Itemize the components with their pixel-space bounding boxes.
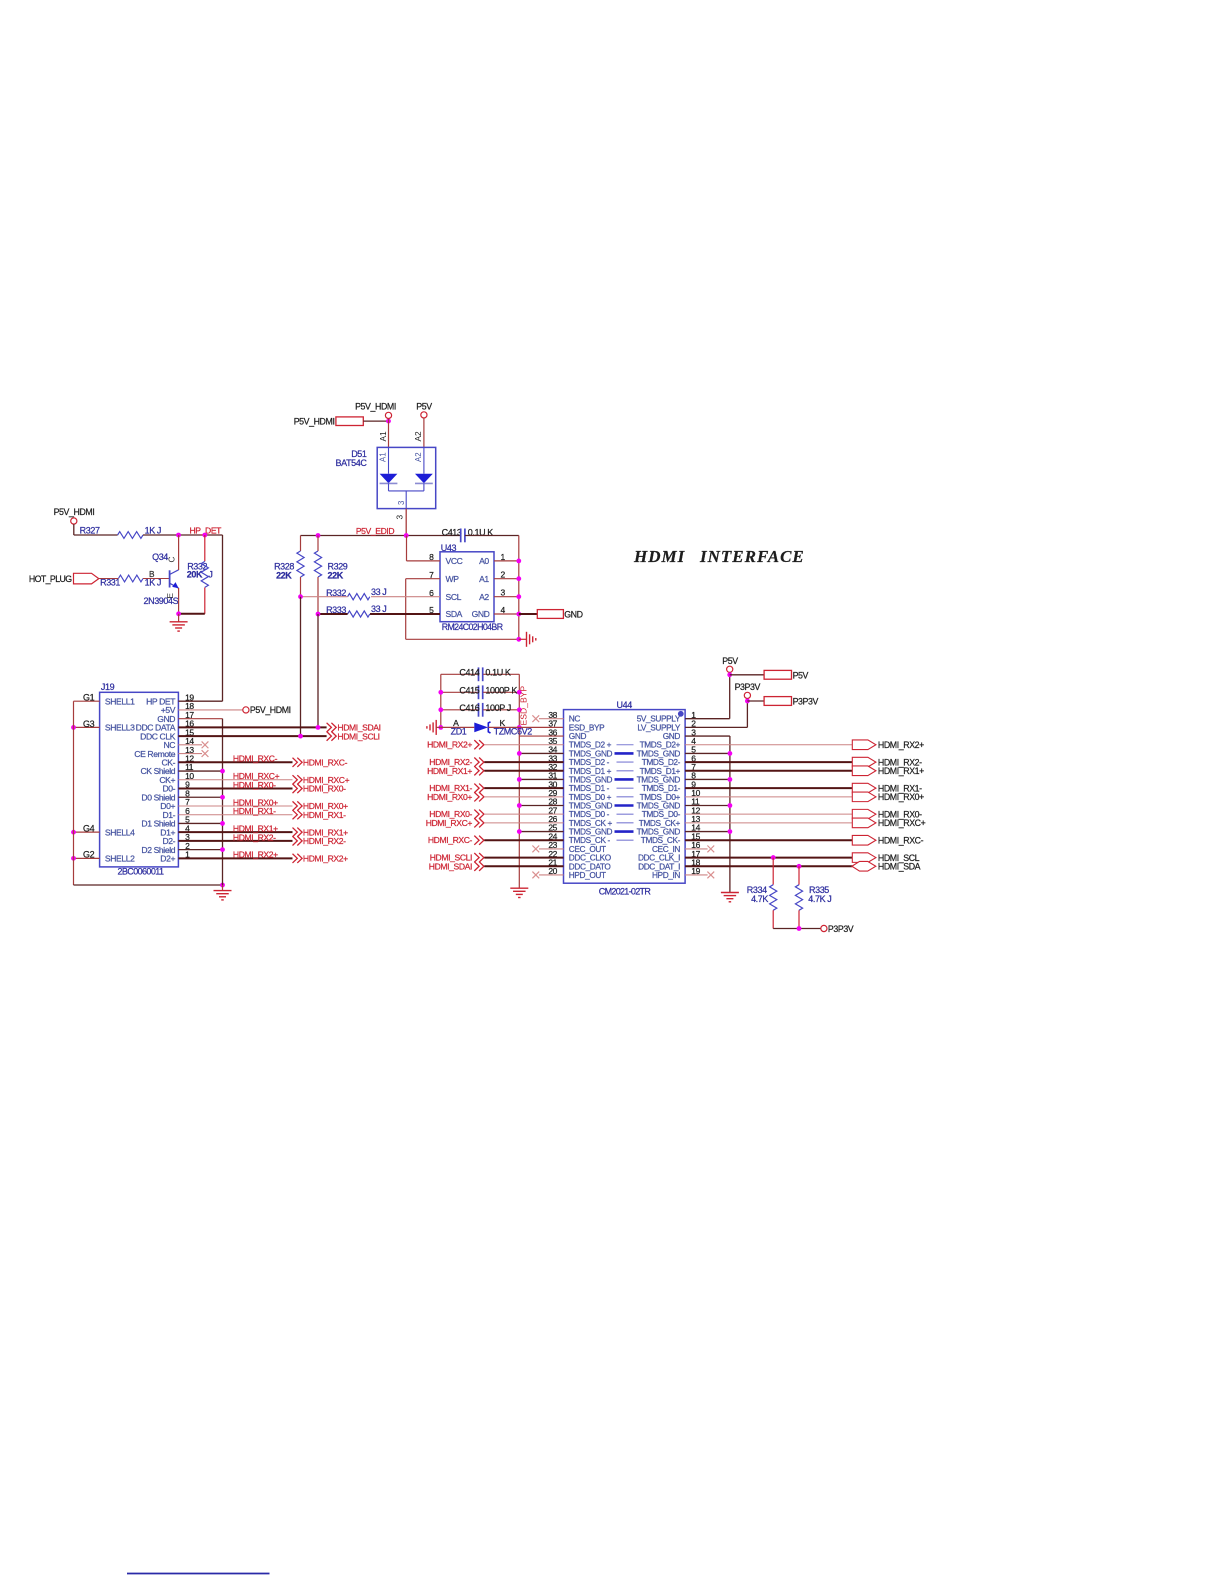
svg-text:HDMI: HDMI (633, 547, 686, 566)
wire HDMI_SDAI to U44 (484, 865, 563, 867)
wire U44 to HDMI_RX1- (685, 787, 852, 789)
svg-text:C413: C413 (442, 527, 462, 537)
net P5V_EDID wire (301, 535, 461, 537)
node HDMI_RX2- (port) (852, 757, 876, 767)
wire P3P3V to pin2 (746, 699, 748, 728)
svg-text:P3P3V: P3P3V (735, 682, 761, 692)
pin 5 SDA wire (370, 613, 440, 615)
wire cap left rail (440, 674, 442, 727)
node junction P5V_EDID / VCC (404, 533, 409, 538)
wire HDMI_RX2- to U44 (484, 761, 563, 763)
node HDMI_SCL (port) (852, 853, 876, 863)
node HDMI_RX2+ (port) (852, 740, 876, 750)
wire HDMI_RX0+ to U44 (484, 796, 563, 798)
svg-text:P5V_HDMI: P5V_HDMI (294, 416, 335, 426)
svg-text:HDMI_RX2+: HDMI_RX2+ (303, 854, 348, 864)
pin 7 WP wire to ground (406, 578, 440, 580)
svg-text:A1: A1 (378, 431, 388, 442)
svg-text:100P J: 100P J (485, 703, 510, 713)
svg-text:BAT54C: BAT54C (336, 458, 368, 468)
svg-text:P3P3V: P3P3V (793, 697, 819, 707)
wire R334/R335 bottom to P3P3V (773, 928, 821, 930)
wire U44 right TMDS_GND (685, 831, 730, 833)
wire J19 pin8 D0 Shield (178, 796, 222, 798)
wire emitter to R332 bottom (179, 613, 205, 615)
wire D51 pin3 to P5V_EDID (405, 509, 407, 536)
capacitor C414 0.1U K (441, 673, 478, 675)
capacitor C416 100P J (441, 709, 478, 711)
pin 8 VCC wire (407, 560, 441, 562)
node junction WP/GND rail (516, 637, 521, 642)
svg-text:33 J: 33 J (371, 587, 386, 597)
wire HP_DET down to J19 pin19 (222, 535, 224, 701)
svg-text:G1: G1 (83, 693, 95, 703)
wire P5V_HDMI to R327 (73, 524, 75, 535)
svg-text:SDA: SDA (446, 609, 463, 619)
svg-text:4.7K: 4.7K (751, 894, 768, 904)
svg-text:A1: A1 (379, 452, 388, 462)
svg-text:VCC: VCC (446, 556, 463, 566)
wire J19 pin11 CK Shield (178, 770, 222, 772)
wire J19 pin5 D1 Shield (178, 822, 222, 824)
svg-text:1K J: 1K J (145, 526, 161, 536)
node HDMI_RXC- (port) (852, 835, 876, 845)
svg-text:HDMI_RX2+: HDMI_RX2+ (427, 740, 472, 750)
svg-text:G3: G3 (83, 719, 95, 729)
net stub P5V (764, 670, 791, 679)
node HDMI_RX0- (out) (293, 784, 303, 793)
wire J19 HDMI_RX0+ (178, 805, 292, 807)
wire R327 to HP_DET junction (143, 534, 223, 536)
wire J19 HDMI_RX1+ (178, 831, 292, 833)
svg-text:G2: G2 (83, 850, 95, 860)
wire U44 TMDS_GND (519, 778, 563, 780)
wire collector up (178, 535, 180, 570)
wire HDMI_RX2+ to U44 (484, 744, 563, 746)
wire HDMI_RX1- to U44 (484, 787, 563, 789)
wire GND rail vertical (J19) (222, 719, 224, 885)
node junction R332b top (202, 533, 207, 538)
svg-text:HDMI_RXC+: HDMI_RXC+ (878, 818, 926, 828)
svg-text:C416: C416 (459, 703, 479, 713)
svg-text:A2: A2 (479, 592, 489, 602)
wire J19 pin13 CE Remote (178, 753, 202, 755)
wire U44 to HDMI_RXC+ (685, 822, 852, 824)
svg-text:B: B (149, 569, 155, 579)
wire U44 pin3 GND (685, 735, 730, 737)
svg-text:P5V: P5V (722, 656, 738, 666)
svg-text:J19: J19 (101, 682, 115, 692)
svg-text:HDMI_RXC-: HDMI_RXC- (878, 836, 924, 846)
wire GND rail vertical (U44 right) (729, 736, 731, 892)
svg-text:6: 6 (429, 588, 434, 598)
wire C413 right to GND rail (465, 535, 519, 537)
wire U44 TMDS_GND (519, 831, 563, 833)
net stub GND (port) (519, 613, 538, 615)
wire P5V_HDMI down to D51 pin A1 (388, 419, 390, 448)
svg-text:HOT_PLUG: HOT_PLUG (29, 574, 72, 584)
node HDMI_RX2- (out) (293, 836, 303, 845)
ground (U43, right-pointing) (519, 638, 526, 640)
wire U44 pin16 CEC_IN (685, 848, 708, 850)
svg-text:RM24C02H04BR: RM24C02H04BR (442, 622, 503, 632)
svg-text:D2+: D2+ (160, 854, 175, 864)
wire U44 to HDMI_RX0- (685, 813, 852, 815)
wire SDA rail down to DDC DATA (317, 614, 319, 727)
wire HDMI_SCLI to U44 (484, 857, 563, 859)
node HDMI_RXC+ (port) (852, 818, 876, 828)
svg-text:A2: A2 (413, 431, 423, 442)
svg-text:HDMI_RX1+: HDMI_RX1+ (427, 766, 472, 776)
svg-text:P5V_HDMI: P5V_HDMI (250, 705, 291, 715)
svg-text:J: J (208, 570, 212, 580)
capacitor C415 1000P K (441, 691, 478, 693)
wire ESD_BYP right rail (518, 674, 520, 888)
svg-text:HDMI_RX0+: HDMI_RX0+ (878, 792, 924, 802)
node HDMI_RX0+ (port) (852, 792, 876, 802)
svg-text:20K: 20K (187, 570, 203, 580)
svg-text:HDMI_SDA: HDMI_SDA (878, 862, 921, 872)
svg-text:WP: WP (446, 574, 460, 584)
wire J19 HDMI_RX0- (178, 788, 292, 790)
svg-text:HDMI_RX2-: HDMI_RX2- (303, 836, 346, 846)
svg-text:1000P K: 1000P K (485, 686, 517, 696)
wire J19 HDMI_RXC- (178, 761, 292, 763)
node HDMI_RXC- (out) (293, 758, 303, 767)
svg-text:C414: C414 (459, 668, 479, 678)
node junction R329 top (316, 533, 321, 538)
zener diode ZD1 TZMC6V2 (441, 726, 475, 728)
svg-text:22K: 22K (276, 570, 292, 580)
wire SCL rail down to DDC CLK (300, 597, 302, 736)
pin G2 wire (74, 857, 100, 859)
U43 right pin wires 1-4 (494, 560, 519, 562)
node junction GND rail bottom (220, 883, 225, 888)
node HDMI_RXC+ (out) (293, 775, 303, 784)
svg-text:SHELL4: SHELL4 (105, 827, 135, 837)
ground (U44 left) (510, 887, 528, 889)
svg-text:HDMI_RX2+: HDMI_RX2+ (878, 740, 924, 750)
svg-text:1: 1 (501, 552, 506, 562)
node junction SCL rail (298, 594, 303, 599)
svg-text:5: 5 (429, 605, 434, 615)
U44 internal links (617, 744, 634, 746)
svg-text:CM2021-02TR: CM2021-02TR (599, 887, 652, 897)
wire J19 pin17 GND (178, 718, 222, 720)
svg-text:ESD_BYP: ESD_BYP (519, 686, 529, 726)
svg-text:1K J: 1K J (145, 578, 161, 588)
svg-text:GND: GND (564, 609, 582, 619)
svg-text:INTERFACE: INTERFACE (699, 547, 805, 566)
wire GND rail vertical (U43 right) (518, 536, 520, 640)
svg-text:A2: A2 (414, 452, 423, 462)
svg-text:GND: GND (472, 609, 490, 619)
pin 6 SCL wire (371, 596, 440, 598)
pin G3 wire (74, 726, 100, 728)
wire HDMI_RXC- to U44 (484, 839, 563, 841)
wire U44 pin36 GND (519, 735, 563, 737)
wire J19 pin15 DDC CLK / HDMI_SCLI (178, 735, 326, 737)
wire U44 pin23 CEC_OUT (539, 848, 564, 850)
ground (Q34) (178, 614, 180, 622)
wire P5V to pin1 (729, 672, 731, 718)
wire HDMI_RX0- to U44 (484, 813, 563, 815)
svg-text:0.1U K: 0.1U K (485, 668, 511, 678)
wire U44 pin20 HPD_OUT (539, 874, 564, 876)
svg-text:R327: R327 (80, 526, 100, 536)
svg-text:HDMI_RX1-: HDMI_RX1- (303, 810, 346, 820)
ground (U44 right) (721, 892, 739, 894)
svg-text:7: 7 (429, 570, 434, 580)
wire U44 pin18 DDC_DAT_I / HDMI_SDA (685, 865, 852, 867)
svg-text:SHELL2: SHELL2 (105, 854, 135, 864)
svg-text:HDMI_RXC-: HDMI_RXC- (428, 835, 473, 845)
svg-text:HDMI_RX2+: HDMI_RX2+ (233, 850, 278, 860)
pin G1 wire (74, 700, 100, 702)
svg-text:ZD1: ZD1 (451, 726, 467, 736)
wire U44 to HDMI_RX0+ (685, 796, 852, 798)
svg-text:HDMI_SDAI: HDMI_SDAI (429, 861, 472, 871)
svg-text:HDMI_RX0-: HDMI_RX0- (303, 784, 346, 794)
node junction emitter/ground (176, 611, 181, 616)
svg-text:4: 4 (501, 605, 506, 615)
svg-text:P5V_EDID: P5V_EDID (356, 526, 395, 536)
wire R331 to base (99, 578, 119, 580)
wire U44 pin19 HPD_IN (685, 874, 708, 876)
svg-text:P5V: P5V (416, 402, 432, 412)
wire J19 HDMI_RX2+ (178, 857, 292, 859)
svg-text:2BC0060011: 2BC0060011 (118, 867, 164, 877)
wire U44 right TMDS_GND (685, 778, 730, 780)
svg-text:HDMI_RX1+: HDMI_RX1+ (878, 766, 924, 776)
node HDMI_RX1- (out) (293, 810, 303, 819)
svg-text:C: C (166, 557, 176, 563)
node HDMI_RX0- (port) (852, 809, 876, 819)
footer rule (127, 1573, 270, 1575)
pin G4 wire (74, 831, 100, 833)
node HDMI_RX1+ (port) (852, 766, 876, 776)
svg-text:HDMI_RXC+: HDMI_RXC+ (426, 818, 473, 828)
ground (J19) (222, 885, 224, 891)
wire shell rail bottom (74, 884, 223, 886)
node HDMI_RX0+ (out) (293, 801, 303, 810)
node HDMI_SDA (port) (852, 861, 876, 871)
svg-text:8: 8 (429, 552, 434, 562)
wire U44 to HDMI_RX1+ (685, 770, 852, 772)
wire P5V down to D51 pin A2 (423, 418, 425, 447)
wire J19 pin2 D2 Shield (178, 849, 222, 851)
wire emitter down (178, 588, 180, 614)
svg-text:U44: U44 (617, 700, 633, 710)
wire HDMI_RXC+ to U44 (484, 822, 563, 824)
svg-text:3: 3 (501, 588, 506, 598)
power port P3P3V (bottom) (821, 925, 827, 931)
svg-text:HDMI_RX2-: HDMI_RX2- (233, 832, 276, 842)
svg-text:SHELL1: SHELL1 (105, 696, 135, 706)
svg-text:33 J: 33 J (371, 604, 386, 614)
wire shell rail left (73, 701, 75, 885)
svg-text:P5V_HDMI: P5V_HDMI (54, 507, 95, 517)
power port P5V_HDMI (pin18) (243, 707, 249, 713)
svg-text:HPD_OUT: HPD_OUT (569, 870, 606, 880)
wire J19 pin19 HP DET (178, 700, 222, 702)
svg-text:SHELL3: SHELL3 (105, 723, 135, 733)
wire SCL to left rail (301, 596, 348, 598)
svg-text:3: 3 (397, 501, 406, 505)
wire U44 TMDS_GND (519, 752, 563, 754)
wire J19 HDMI_RX1- (178, 814, 292, 816)
wire U44 to HDMI_RX2+ (685, 744, 852, 746)
svg-text:3: 3 (395, 515, 405, 520)
wire J19 pin18 +5V (178, 709, 242, 711)
svg-text:HDMI_RX0-: HDMI_RX0- (233, 780, 276, 790)
svg-text:HDMI_RX1-: HDMI_RX1- (233, 806, 276, 816)
svg-text:G4: G4 (83, 824, 95, 834)
svg-text:22K: 22K (328, 570, 344, 580)
wire P5V_HDMI stub to junction (363, 420, 388, 422)
net stub P3P3V (764, 697, 791, 706)
svg-text:HDMI_SCLI: HDMI_SCLI (337, 731, 379, 741)
svg-text:HDMI_RX0+: HDMI_RX0+ (427, 792, 472, 802)
svg-text:P5V: P5V (793, 670, 809, 680)
svg-text:P3P3V: P3P3V (828, 924, 854, 934)
wire U44 right TMDS_GND (685, 805, 730, 807)
node HDMI_RX1+ (out) (293, 828, 303, 837)
wire U44 pin38 NC (539, 718, 564, 720)
node junction SDA rail (316, 612, 321, 617)
svg-text:2: 2 (501, 570, 506, 580)
svg-text:A0: A0 (479, 556, 489, 566)
wire U44 to HDMI_RXC- (685, 839, 852, 841)
svg-text:SCL: SCL (446, 592, 462, 602)
wire U44 to HDMI_RX2- (685, 761, 852, 763)
node junction collector/HP_DET (176, 533, 181, 538)
wire SDA to left rail (318, 613, 348, 615)
wire J19 pin16 DDC DATA / HDMI_SDAI (178, 726, 326, 728)
wire J19 pin14 NC (178, 744, 202, 746)
wire U44 right TMDS_GND (685, 752, 730, 754)
svg-text:HDMI_RXC-: HDMI_RXC- (303, 758, 348, 768)
svg-text:2N3904S: 2N3904S (144, 596, 179, 606)
svg-text:P5V_HDMI: P5V_HDMI (355, 402, 396, 412)
wire J19 HDMI_RXC+ (178, 779, 292, 781)
wire ZD1 to U44 pin37 (519, 726, 563, 728)
wire J19 HDMI_RX2- (178, 840, 292, 842)
wire U44 TMDS_GND (519, 805, 563, 807)
node junction P5V_HDMI (386, 419, 391, 424)
svg-text:A1: A1 (479, 574, 489, 584)
wire U44 pin17 DDC_CLK_I / HDMI_SCL (685, 857, 852, 859)
svg-text:HDMI_RXC-: HDMI_RXC- (233, 754, 278, 764)
node HDMI_RX2+ (out) (293, 854, 303, 863)
svg-text:C415: C415 (459, 686, 479, 696)
svg-text:4.7K J: 4.7K J (808, 894, 831, 904)
wire HDMI_RX1+ to U44 (484, 770, 563, 772)
svg-text:HPD_IN: HPD_IN (652, 870, 680, 880)
ground (ZD1, left-pointing) (435, 720, 437, 735)
node HDMI_RX1- (port) (852, 783, 876, 793)
svg-text:R331: R331 (100, 578, 120, 588)
